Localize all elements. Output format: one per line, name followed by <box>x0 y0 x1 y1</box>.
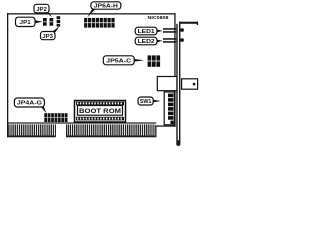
edge connector top line <box>7 122 156 123</box>
BNC connector body <box>157 77 177 91</box>
edge connector notch right boundary <box>65 124 68 135</box>
svg-text:JP2: JP2 <box>36 7 47 13</box>
LED1 component <box>163 28 184 33</box>
DIP switch SW1 <box>164 92 174 125</box>
callout JP3 <box>41 26 60 40</box>
edge connector fingers section 1 <box>8 124 56 135</box>
svg-text:JP1: JP1 <box>20 20 31 26</box>
callout JP6A-H <box>87 2 121 18</box>
bracket top tab <box>179 22 198 24</box>
edge connector fingers section 2 <box>66 124 155 135</box>
jumper JP2 block <box>50 18 54 26</box>
svg-text:LED1: LED1 <box>138 29 155 35</box>
jumper block JP5A-C <box>147 55 160 68</box>
svg-text:JP6A-H: JP6A-H <box>94 4 119 10</box>
callout JP2 <box>34 4 52 17</box>
card top edge <box>7 13 176 14</box>
bracket vertical line 1 <box>176 24 177 142</box>
bracket vertical line 2 <box>179 22 180 142</box>
edge connector baseline section 2 <box>66 135 155 137</box>
bracket tab end lip <box>197 22 198 25</box>
jumper JP1 block <box>43 18 47 26</box>
svg-text:SW1: SW1 <box>140 99 152 105</box>
callout LED1 <box>135 27 163 35</box>
svg-text:JP3: JP3 <box>42 34 53 40</box>
card right edge <box>174 13 175 127</box>
LED2 component <box>163 38 184 43</box>
BOOT ROM label box <box>78 106 123 116</box>
svg-text:JP5A-C: JP5A-C <box>106 59 132 65</box>
svg-text:NIC0808: NIC0808 <box>148 15 169 21</box>
jumper JP3 block <box>57 16 61 26</box>
header JP4A-G <box>44 113 68 122</box>
edge connector notch left boundary <box>54 124 57 135</box>
BOOT ROM chip <box>75 101 126 123</box>
card edge-connector right step <box>155 125 156 137</box>
svg-text:LED2: LED2 <box>138 39 155 45</box>
BNC connector barrel <box>182 79 198 89</box>
edge connector baseline section 1 <box>7 135 56 137</box>
svg-text:JP4A-G: JP4A-G <box>17 101 42 107</box>
callout JP4A-G <box>14 98 46 113</box>
callout LED2 <box>135 37 163 45</box>
top pin row <box>76 102 124 106</box>
svg-text:BOOT ROM: BOOT ROM <box>79 109 121 115</box>
callout JP1 <box>16 17 43 26</box>
callout JP5A-C <box>103 56 144 65</box>
bottom pin row <box>76 117 124 121</box>
header JP6A-H <box>84 18 116 28</box>
BNC center pin dot <box>193 83 196 86</box>
callout SW1 <box>138 97 161 105</box>
card bottom-right edge <box>155 125 175 126</box>
bracket bottom tip <box>176 140 180 146</box>
card left edge <box>7 13 8 137</box>
